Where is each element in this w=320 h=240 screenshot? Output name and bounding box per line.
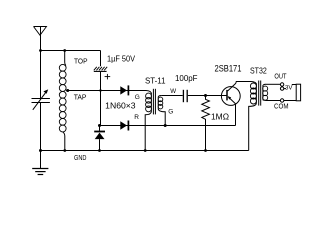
ground [32, 149, 48, 175]
transformer T2 core [259, 81, 261, 106]
capacitor C2 100pF [183, 90, 187, 102]
svg-text:W: W [170, 88, 176, 95]
svg-text:COM: COM [274, 102, 289, 111]
wire COM lead [266, 100, 281, 102]
svg-text:1N60×3: 1N60×3 [105, 100, 136, 110]
svg-text:GND: GND [74, 153, 87, 162]
svg-text:OUT: OUT [274, 72, 287, 81]
node coil bottom on rail [63, 149, 66, 152]
node diode D3 on rail [98, 149, 101, 152]
transformer T1 ST-11 primary [145, 91, 151, 151]
transistor Q1 2SB171 [221, 82, 240, 126]
node base junction [204, 94, 207, 97]
wire ground rail [41, 150, 249, 152]
node coil top junction [63, 49, 66, 52]
wire jack bottom [284, 100, 296, 102]
wire coil top lead [65, 51, 66, 66]
svg-text:1MΩ: 1MΩ [211, 112, 229, 121]
capacitor VC variable tuning [32, 51, 50, 151]
inductor L1 tuning coil [59, 64, 66, 131]
node antenna junction [39, 49, 42, 52]
node TAP junction [66, 89, 69, 92]
svg-text:R: R [134, 114, 139, 121]
node ST-11 G lead junction [164, 124, 167, 127]
capacitor C1 1uF electrolytic [94, 67, 107, 72]
diode D1 1N60 G [120, 85, 128, 95]
svg-text:G: G [168, 108, 173, 115]
jack J1 terminals [280, 83, 283, 102]
transformer T1 ST-11 secondary [158, 96, 165, 126]
node resistor on rail [204, 149, 207, 152]
wire base [188, 95, 227, 97]
polarity plus mark [105, 74, 111, 80]
resistor R1 1M [202, 96, 210, 151]
jack J1 plug body [296, 84, 300, 101]
svg-text:TAP: TAP [74, 92, 87, 101]
node ST-11 R lead on rail [144, 149, 147, 152]
antenna [34, 26, 47, 50]
wire R horizontal [100, 125, 236, 127]
wire TAP stub [66, 90, 68, 92]
wire top horizontal [41, 50, 101, 52]
svg-text:1µF 50V: 1µF 50V [107, 54, 136, 63]
svg-text:ST-11: ST-11 [145, 76, 166, 85]
wire collector top [236, 81, 251, 83]
wire cap C1 bottom lead [100, 72, 102, 126]
wire jack contact [284, 88, 286, 90]
wire cap C1 top lead [100, 51, 102, 67]
wire OUT lead [266, 83, 280, 85]
svg-text:G: G [135, 94, 140, 101]
wire coil bottom lead [63, 132, 65, 151]
svg-text:ST32: ST32 [250, 65, 267, 75]
transformer T2 ST32 secondary [263, 84, 268, 100]
svg-text:100pF: 100pF [175, 74, 198, 83]
wire jack top [292, 84, 296, 86]
transformer T1 core [153, 89, 155, 115]
svg-text:3V: 3V [285, 85, 293, 92]
svg-text:2SB171: 2SB171 [215, 63, 242, 73]
wire TAP horizontal [68, 90, 146, 92]
transformer T2 ST32 primary [249, 82, 257, 151]
diode D3 1N60 vertical [94, 126, 105, 151]
node R-wire left junction [98, 124, 101, 127]
node cap tap crossing [99, 89, 101, 91]
wire W to cap [161, 95, 183, 97]
svg-text:TOP: TOP [74, 56, 88, 65]
diode D2 1N60 R [120, 121, 128, 131]
